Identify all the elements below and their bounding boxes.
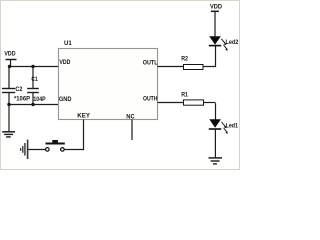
svg-text:R1: R1 (181, 91, 188, 98)
svg-text:VDD: VDD (210, 4, 222, 11)
resistor R1 (184, 100, 204, 105)
svg-text:104P: 104P (33, 96, 46, 103)
svg-text:KEY: KEY (77, 112, 90, 119)
resistor R2 (184, 65, 204, 70)
wire GND rail (9, 104, 59, 106)
capacitor C1 (27, 67, 39, 105)
power symbol VDD (left) (4, 50, 16, 66)
wire NC stub (131, 120, 133, 141)
svg-text:C1: C1 (31, 76, 38, 83)
svg-text:VDD: VDD (4, 50, 15, 57)
wire KEY pin to button (64, 120, 84, 150)
ground (left) (2, 132, 15, 137)
wire C2 to ground (8, 105, 10, 132)
node junction VDD/C1 (31, 65, 34, 68)
svg-text:VDD: VDD (59, 59, 70, 66)
capacitor C2 (2, 67, 15, 105)
wire VDD to Led2 anode (214, 11, 216, 36)
wire Led1 cathode to ground (214, 129, 216, 157)
LED Led1 (209, 119, 239, 134)
svg-text:U1: U1 (64, 40, 72, 47)
pushbutton (KEY) (46, 140, 65, 151)
svg-text:OUTL: OUTL (143, 60, 158, 67)
svg-text:Led2: Led2 (226, 39, 239, 46)
node junction GND/C1 (31, 103, 34, 106)
IC U1 (59, 49, 158, 120)
wire R1 to Led1 anode (204, 103, 216, 120)
wire button to ground (28, 149, 45, 151)
wire OUTH to R1 (158, 102, 184, 104)
svg-text:C2: C2 (15, 86, 22, 93)
svg-text:OUTH: OUTH (143, 96, 158, 103)
svg-text:Led1: Led1 (226, 123, 239, 130)
ground (right) (209, 158, 223, 164)
svg-text:GND: GND (59, 96, 72, 103)
power symbol VDD (top right) (210, 4, 222, 12)
ground (rotated, left of button) (21, 140, 28, 159)
wire VDD rail (9, 66, 59, 68)
svg-text:R2: R2 (181, 56, 188, 63)
wire OUTL to R2 (158, 66, 184, 68)
LED Led2 (209, 36, 239, 51)
svg-text:NC: NC (126, 114, 135, 121)
svg-text:*106P: *106P (14, 96, 31, 103)
node junction GND/C2 (7, 103, 10, 106)
wire R2 to Led2 cathode (203, 46, 216, 67)
node junction VDD/C2 (8, 65, 11, 68)
